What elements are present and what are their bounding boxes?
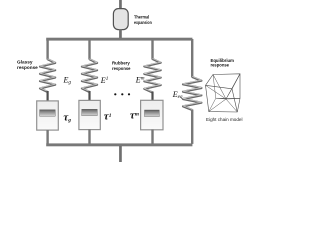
cube silhouette and faces (206, 74, 241, 89)
branch 4 wire top (191, 39, 193, 78)
top bus bar (46, 38, 192, 41)
dashpot box tau_g (37, 101, 59, 130)
wire below box 3 (151, 129, 153, 143)
dashpot piston branch 1 (40, 110, 56, 117)
dashpot box tau_1 (79, 100, 100, 129)
spring Em (144, 59, 160, 93)
bottom bus bar (46, 143, 192, 146)
svg-text:expansion: expansion (134, 20, 152, 25)
ellipsis dots (114, 93, 116, 95)
top stem wire (119, 0, 122, 10)
cube chain diagonals (206, 74, 241, 112)
bottom stem wire (119, 146, 122, 162)
svg-text:Eight chain model: Eight chain model (206, 117, 243, 122)
wire capsule to top bus (119, 29, 122, 39)
wire below box 1 (46, 130, 48, 144)
piston rod branch 1 (47, 91, 49, 111)
spring E1 (82, 59, 97, 92)
branch 2 wire top (88, 39, 90, 60)
svg-text:response: response (17, 65, 38, 70)
branch 1 wire top (46, 39, 48, 60)
dashpot piston branch 2 (82, 109, 98, 116)
dashpot box tau_m (141, 100, 163, 130)
piston rod branch 3 (151, 92, 153, 112)
thermal expansion capsule (113, 9, 128, 30)
svg-text:Thermal: Thermal (134, 14, 149, 19)
equilibrium spring Eeq (183, 77, 201, 110)
eight chain model cube (206, 74, 241, 112)
svg-text:response: response (112, 66, 131, 71)
svg-text:Glassy: Glassy (17, 59, 33, 64)
branch 4 wire bottom (191, 110, 193, 144)
dashpot piston branch 3 (145, 110, 160, 117)
branch 3 wire top (151, 39, 153, 60)
wire below box 2 (88, 129, 90, 143)
spring Eg (40, 59, 55, 92)
piston rod branch 2 (88, 91, 90, 111)
svg-text:Rubbery: Rubbery (112, 60, 130, 65)
svg-text:response: response (211, 62, 230, 67)
